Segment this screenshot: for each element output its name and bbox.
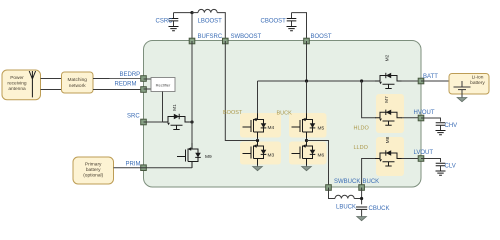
svg-text:BEDRP: BEDRP: [120, 72, 141, 78]
wire PRIM line: [144, 167, 193, 169]
transistor M3: [243, 140, 275, 165]
transistor M5: [292, 114, 325, 139]
svg-text:CLV: CLV: [445, 164, 456, 170]
wire antenna to matching (bottom): [41, 89, 62, 91]
svg-text:M9: M9: [205, 154, 212, 160]
wire BATT to battery box: [421, 80, 462, 82]
svg-text:BOOST: BOOST: [311, 34, 332, 40]
capacitor CSRC: [156, 13, 179, 27]
node HLDO rail junction: [360, 79, 363, 82]
svg-text:CSRC: CSRC: [156, 18, 174, 24]
wire antenna to matching (top): [41, 78, 62, 80]
pin SWBOOST: [223, 34, 262, 44]
svg-text:battery: battery: [470, 80, 485, 86]
svg-text:LBUCK: LBUCK: [336, 204, 356, 210]
wire BUCK pin down: [361, 188, 363, 205]
svg-text:M7: M7: [384, 96, 390, 103]
pin SWBUCK: [326, 179, 361, 190]
wire buck SW to SWBUCK pin: [307, 141, 329, 188]
wire BUCK pin rail to LLDO: [362, 159, 376, 188]
svg-text:CBUCK: CBUCK: [369, 206, 390, 212]
tan block BOOST low-side: [240, 142, 281, 165]
box matching network: [62, 72, 94, 93]
rectifier block: [144, 78, 176, 92]
svg-text:BUCK: BUCK: [363, 179, 380, 185]
antenna symbol: [29, 71, 35, 97]
pin HVOUT: [414, 110, 435, 121]
wire boost node line: [258, 80, 378, 82]
wire matching to REDRM: [93, 89, 144, 91]
label PRIM: [126, 161, 141, 167]
svg-text:SWBUCK: SWBUCK: [334, 179, 360, 185]
svg-text:BOOST: BOOST: [223, 110, 243, 116]
wire matching to BEDRP: [93, 78, 144, 80]
wire SWBUCK down to LBUCK: [329, 188, 336, 199]
pin SRC: [127, 113, 146, 124]
svg-text:(optional): (optional): [83, 173, 103, 179]
wire LVOUT to CLV: [421, 159, 441, 163]
tan block BUCK low-side: [289, 142, 327, 165]
label BUCK section: [277, 111, 293, 117]
ground under CBOOST: [287, 27, 297, 31]
node SW boost junction: [256, 139, 259, 142]
ground under CSRC: [169, 27, 179, 31]
wire rail to HLDO: [362, 81, 376, 118]
transistor M6: [292, 140, 325, 165]
wire primary battery to PRIM: [114, 167, 144, 169]
svg-text:Rectifier: Rectifier: [156, 82, 171, 87]
svg-text:BUFSRC: BUFSRC: [198, 34, 223, 40]
label REDRM: [110, 79, 142, 88]
IC main block U1: [144, 41, 422, 188]
ground under battery: [457, 98, 467, 102]
transistor M8: [375, 136, 402, 166]
transistor M1: [163, 104, 190, 130]
ground under CLV: [436, 171, 446, 175]
tan block BUCK high-side: [289, 113, 327, 138]
transistor M7: [375, 96, 402, 125]
svg-text:M1: M1: [172, 104, 178, 111]
label BEDRP: [120, 72, 141, 78]
tan block BOOST high-side: [240, 113, 281, 138]
transistor M2: [375, 54, 402, 88]
wire CSRC to node: [174, 12, 193, 14]
pin PRIM: [141, 165, 147, 171]
ground under CBUCK: [357, 217, 367, 221]
wire BOOST rail to M5: [306, 81, 308, 114]
wire CBOOST to BOOST pin: [292, 13, 307, 41]
svg-text:Power: Power: [10, 75, 24, 81]
wire SWBOOST rail: [225, 41, 257, 141]
ground under CHV: [436, 131, 446, 135]
label BOOST section: [223, 110, 243, 116]
svg-text:SRC: SRC: [127, 113, 140, 119]
wire M8 to LVOUT pin: [402, 158, 422, 160]
pin BATT: [418, 74, 438, 84]
svg-text:M2: M2: [384, 54, 390, 61]
wire node down to BUFSRC pin: [191, 13, 193, 41]
node buck SW junction: [305, 139, 308, 143]
svg-text:Primary: Primary: [85, 162, 102, 168]
node M1/BUFSRC junction: [190, 120, 193, 123]
svg-text:PRIM: PRIM: [126, 161, 141, 167]
svg-text:CHV: CHV: [445, 123, 458, 129]
wire M2 to BATT pin: [402, 80, 422, 82]
tan block HLDO: [376, 94, 404, 133]
svg-text:REDRM: REDRM: [115, 82, 137, 88]
svg-text:M3: M3: [268, 153, 275, 159]
wire BUFSRC rail: [191, 41, 193, 143]
node LBUCK/CBUCK junction: [360, 197, 363, 200]
svg-text:Li-ion: Li-ion: [472, 75, 484, 81]
wire BOOST rail: [306, 41, 308, 81]
label HLDO: [354, 126, 370, 132]
battery symbol: [454, 81, 471, 98]
svg-text:HLDO: HLDO: [354, 126, 370, 132]
box Li-ion battery: [449, 74, 489, 95]
pin BUCK: [359, 179, 379, 190]
inductor LBOOST: [192, 9, 225, 41]
pin BEDRP: [141, 76, 147, 82]
wire M1 to BUFSRC rail: [190, 121, 193, 123]
svg-text:battery: battery: [86, 167, 101, 173]
inductor LBUCK: [335, 195, 362, 210]
svg-text:M8: M8: [385, 136, 391, 143]
svg-text:network: network: [69, 83, 86, 89]
box power receiving antenna: [2, 70, 41, 100]
wire M7 to HVOUT pin: [402, 117, 422, 119]
node junction BUFSRC top: [190, 11, 193, 14]
svg-text:M5: M5: [318, 126, 325, 132]
svg-text:antenna: antenna: [8, 86, 26, 92]
wire rectifier output down to SRC line: [162, 92, 164, 123]
capacitor CBOOST: [261, 13, 297, 27]
tan block LLDO: [376, 137, 404, 176]
wire SRC to M1: [144, 121, 166, 123]
capacitor CHV: [436, 123, 457, 131]
capacitor CLV: [436, 163, 456, 171]
transistor M9: [177, 143, 212, 168]
svg-text:BATT: BATT: [423, 74, 438, 80]
svg-text:M4: M4: [268, 125, 275, 131]
svg-text:LBOOST: LBOOST: [198, 18, 223, 24]
svg-text:CBOOST: CBOOST: [261, 18, 287, 24]
svg-text:M6: M6: [318, 153, 325, 159]
svg-text:BUCK: BUCK: [277, 111, 293, 117]
wire HVOUT to CHV: [421, 118, 441, 122]
pin BUFSRC: [189, 34, 223, 44]
svg-text:receiving: receiving: [7, 81, 27, 87]
ground under M6: [302, 165, 312, 171]
svg-text:LVOUT: LVOUT: [414, 150, 434, 156]
svg-text:HVOUT: HVOUT: [414, 110, 435, 116]
transistor M4: [243, 114, 275, 139]
node BOOST rail junction: [305, 79, 308, 82]
svg-text:LLDO: LLDO: [354, 145, 369, 151]
wire M4 to node: [257, 139, 259, 141]
svg-text:Matching: Matching: [67, 77, 87, 83]
pin BOOST: [304, 34, 332, 44]
wire boost node to M4: [257, 81, 259, 114]
pin LVOUT: [414, 150, 434, 161]
svg-text:SWBOOST: SWBOOST: [231, 34, 262, 40]
label LLDO: [354, 145, 369, 151]
pin REDRM: [141, 87, 147, 93]
box primary battery (optional): [73, 157, 114, 184]
ground under M3: [253, 165, 263, 171]
capacitor CBUCK: [356, 206, 390, 216]
